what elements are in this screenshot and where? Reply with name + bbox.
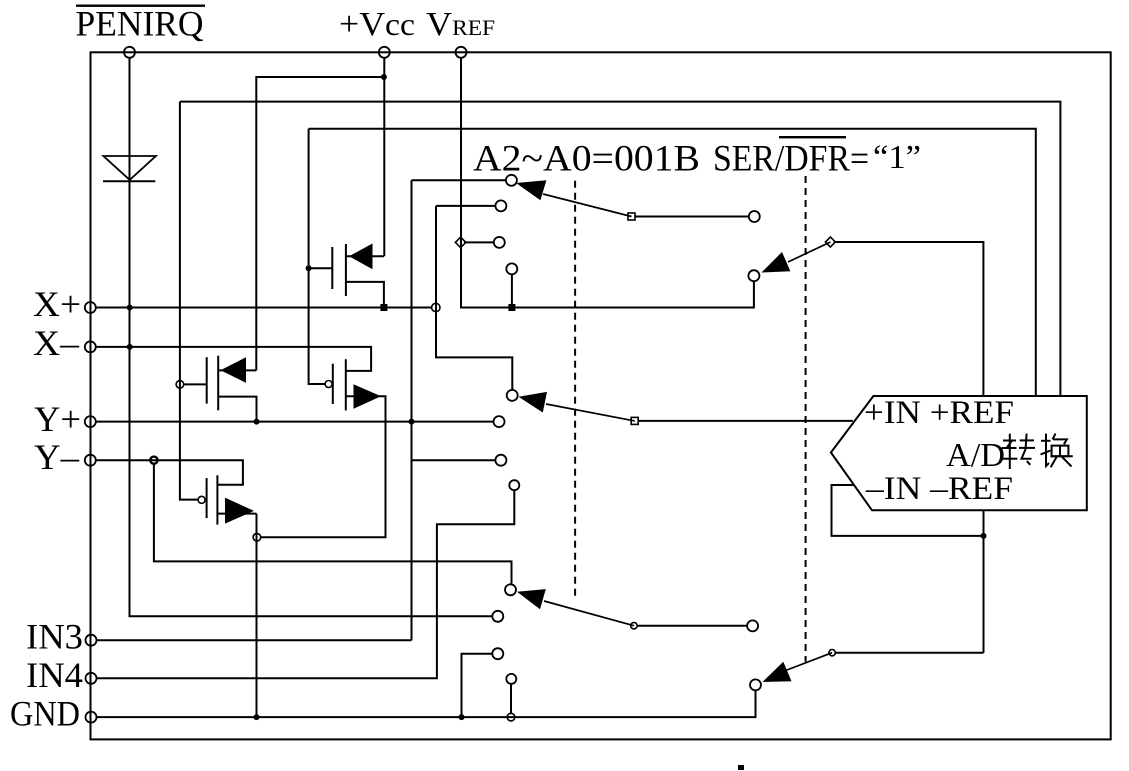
switch SW3 common contact: [505, 584, 516, 595]
transistor M1 drain stub to +Vcc: [346, 255, 384, 257]
wire long vertical SW1-common/Y+/IN3: [411, 180, 413, 640]
dashed boundary line left: [574, 181, 576, 601]
wire IN4 line up to throw circle: [97, 490, 515, 678]
node dot M1 gate tap: [306, 265, 312, 271]
svg-text:VREF: VREF: [426, 6, 495, 43]
svg-text:Y+: Y+: [34, 399, 81, 439]
node dot +Vcc branch: [381, 74, 387, 80]
wire link M2R source to M3 source line: [261, 396, 386, 537]
contact circle IN3 throw: [495, 455, 506, 466]
wire M3 source down to GND: [256, 514, 258, 717]
A/D converter block outline: [831, 396, 1087, 510]
svg-text:X+: X+: [33, 284, 81, 324]
node junction circle M2L gate: [176, 381, 184, 389]
contact circle b3: [506, 263, 517, 274]
node circle SW3 lever end: [631, 623, 637, 629]
node dot -IN junction: [981, 533, 987, 539]
node dot X- diode line: [127, 344, 133, 350]
wire SW3 throw line: [637, 625, 747, 627]
wire GND line up to SW4 common: [97, 690, 756, 717]
wire M2L drain stub: [218, 369, 256, 371]
wire Y- line wrapping into M3 drain: [96, 460, 243, 485]
arrow SW3: [517, 589, 546, 609]
contact circle VREF throw: [494, 237, 505, 248]
svg-text:GND: GND: [10, 694, 80, 734]
node diamond on VREF feed: [455, 237, 465, 247]
wire -IN loop from A/D notch: [832, 485, 984, 536]
arrow SW1: [516, 180, 546, 200]
wire SW1 common lead: [412, 179, 506, 181]
pin IN4 terminal: [86, 673, 97, 684]
contact circle b2: [495, 200, 506, 211]
wire VREF throw lead: [464, 241, 494, 243]
transistor M2L channel bar: [217, 356, 219, 411]
arrow SW4: [763, 662, 792, 682]
svg-text:PENIRQ: PENIRQ: [76, 4, 204, 44]
pin IN3 terminal: [86, 635, 97, 646]
transistor M2L gate bar: [206, 357, 208, 403]
contact circle PENIRQ throw: [492, 611, 503, 622]
node dot M3 line on GND: [254, 714, 260, 720]
node square SW2 lever end: [631, 417, 638, 424]
wire gate rail (right MOSFET gates) to A/D block: [309, 129, 1036, 396]
switch SW4 common contact: [750, 679, 761, 690]
svg-text:IN4: IN4: [26, 655, 83, 695]
node junction circle M3 gate bubble: [198, 496, 205, 503]
switch SW2 common contact: [507, 390, 518, 401]
wire IN3 line: [97, 639, 412, 641]
wire Y+ line: [96, 421, 494, 423]
arrow SWX: [762, 252, 791, 273]
node square b3 stub on VREF ext: [508, 304, 515, 311]
pin Y+ terminal: [85, 416, 96, 427]
wire gate chain B down to M2R gate: [309, 129, 325, 384]
svg-text:A/D: A/D: [946, 437, 1005, 474]
svg-text:+IN +REF: +IN +REF: [864, 395, 1014, 431]
node junction circle on X+ at SW2 feed: [432, 303, 440, 311]
switch SW1 lever: [543, 194, 632, 217]
contact circle Y+ throw: [494, 416, 505, 427]
wire X- line wrapping into M2R drain: [96, 347, 371, 371]
wire X+ line: [96, 307, 432, 309]
node dot X+ diode line: [127, 305, 133, 311]
svg-text:–IN –REF: –IN –REF: [865, 471, 1013, 507]
node circle SW4 lever end: [829, 650, 835, 656]
wire +Vcc vertical feed: [383, 58, 385, 256]
svg-text:IN3: IN3: [26, 617, 83, 657]
svg-text:+Vcc: +Vcc: [339, 6, 415, 43]
pin VREF terminal: [456, 47, 467, 58]
switch SWX common contact: [748, 270, 759, 281]
wire lead to circle b2: [436, 205, 495, 207]
diode D1 cathode bar: [103, 180, 155, 182]
switch SW3 throw contact: [747, 620, 758, 631]
transistor M1 gate lead: [309, 267, 333, 269]
dashed boundary line right: [805, 176, 807, 662]
transistor M2R channel bar: [345, 359, 347, 410]
glyph zhuan (char of A/D converter label): [1002, 434, 1035, 469]
contact circle GND stub: [506, 674, 516, 684]
wire SW2 pole to A/D +IN: [638, 420, 853, 422]
node junction circle M3 source link: [253, 533, 261, 541]
wire +Vcc branch rail to vertical A: [256, 77, 384, 370]
switch SWX lever (X+ ext): [788, 242, 830, 262]
wire GND branch to throw circle: [462, 654, 493, 717]
wire GND stub to small circle: [510, 684, 512, 713]
node junction circle Y- branch: [150, 457, 157, 464]
switch SW3 lever: [544, 601, 634, 626]
contact circle IN4 throw: [509, 480, 519, 490]
wire PENIRQ pull-line from PENIRQ pin down and right to switch bank: [130, 58, 493, 617]
node diamond SWX lever end: [825, 237, 835, 247]
arrow SW2: [519, 392, 548, 413]
node dot branch on GND: [459, 714, 465, 720]
contact circle GND throw: [492, 648, 503, 659]
wire SWX throw to A/D block top: [834, 242, 984, 396]
node junction circle M2R gate bubble: [325, 381, 332, 388]
wire IN3 branch to throw circle: [412, 459, 496, 461]
label DFR overline: [779, 136, 846, 138]
switch SW2 lever: [546, 404, 635, 421]
node junction circle GND stub: [507, 713, 515, 721]
arrow M3 (points right): [225, 498, 254, 524]
pin +Vcc terminal: [379, 47, 390, 58]
transistor M3 channel bar: [216, 475, 218, 524]
caption fragment at bottom: [738, 765, 744, 770]
svg-text:Y–: Y–: [34, 437, 80, 477]
arrow M1 (points left): [349, 244, 373, 270]
svg-text:“1”: “1”: [873, 139, 921, 176]
wire gate chain A down to M3 gate: [180, 102, 198, 500]
transistor M3 source stub: [217, 513, 256, 515]
transistor M2R gate bar: [332, 364, 334, 404]
wire gate rail (left MOSFET gates) to A/D block: [180, 102, 1061, 396]
arrow M2L (points left): [221, 357, 247, 383]
transistor M1 gate bar: [331, 247, 333, 289]
node dot M2L source on Y+: [254, 419, 260, 425]
label PENIRQ overline: [76, 5, 205, 7]
node square SW1 lever end: [628, 213, 635, 220]
wire SW1 throw line: [635, 216, 749, 218]
transistor M3 gate bar: [206, 478, 208, 518]
wire VREF feed down and across to X+ ext switch: [461, 58, 754, 308]
wire -IN vertical through A/D bottom: [983, 510, 985, 652]
wire switch throw b2 down through X+ node to SW2 common: [436, 206, 512, 390]
switch SW1 throw contact: [749, 211, 760, 222]
switch SW1 common contact: [506, 175, 517, 186]
transistor M2L gate lead: [184, 383, 207, 385]
transistor M1 source stub down to X+: [346, 282, 384, 308]
wire Y- branch down to SW3 common: [154, 464, 512, 584]
pin X+ terminal: [85, 302, 96, 313]
wire throw circle b3 stub down to VREF ext line: [511, 274, 513, 307]
wire SW4 throw to -IN node: [835, 652, 983, 654]
svg-text:SER/DFR=: SER/DFR=: [713, 139, 869, 180]
svg-text:A2~A0=001B: A2~A0=001B: [473, 139, 700, 180]
pin PENIRQ terminal: [124, 47, 135, 58]
node dot long vertical on Y+: [409, 419, 415, 425]
svg-text:X–: X–: [33, 323, 80, 363]
transistor M1 channel bar: [345, 244, 347, 296]
node square M1 source on X+: [380, 304, 387, 311]
glyph huan (char of A/D converter label): [1041, 434, 1073, 468]
pin Y- terminal: [85, 455, 96, 466]
pin X- terminal: [85, 341, 96, 352]
wire M2L source to Y+: [218, 397, 256, 422]
diode D1 triangle: [103, 156, 155, 180]
pin GND terminal: [86, 712, 97, 723]
arrow M2R (points right): [354, 384, 382, 409]
switch SW4 lever: [783, 653, 832, 672]
